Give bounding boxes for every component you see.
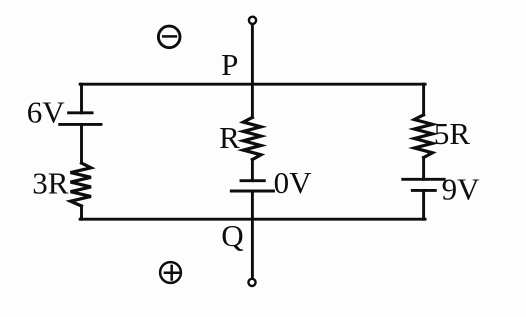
resistor 5R [414, 115, 432, 158]
svg-text:6V: 6V [27, 94, 66, 129]
polarity symbol circled plus [160, 262, 181, 283]
battery 6V [60, 113, 101, 125]
svg-text:0V: 0V [274, 165, 313, 200]
svg-text:P: P [221, 47, 238, 82]
wire right rail lower [422, 190, 425, 219]
wire left rail upper [80, 84, 83, 113]
terminal bottom [248, 279, 255, 286]
wire middle rail between R and 0V battery [251, 160, 254, 181]
wire right rail upper [422, 84, 425, 115]
polarity symbol circled minus [158, 26, 180, 48]
wire right rail middle [422, 158, 425, 180]
battery 0V [231, 181, 273, 191]
svg-text:5R: 5R [434, 116, 471, 151]
wire bottom (Q rail) [80, 218, 425, 221]
wire left rail lower [80, 206, 83, 219]
resistor 3R [71, 163, 92, 206]
svg-text:9V: 9V [442, 172, 481, 207]
resistor R [243, 117, 261, 159]
wire middle rail upper [251, 25, 254, 118]
battery 9V [403, 179, 444, 190]
terminal top [249, 17, 256, 24]
svg-text:Q: Q [221, 218, 243, 253]
wire middle rail lower [251, 191, 254, 278]
svg-text:R: R [219, 120, 240, 155]
svg-text:3R: 3R [32, 166, 69, 201]
wire left rail middle [80, 124, 83, 163]
wire top (P rail) [80, 83, 425, 86]
